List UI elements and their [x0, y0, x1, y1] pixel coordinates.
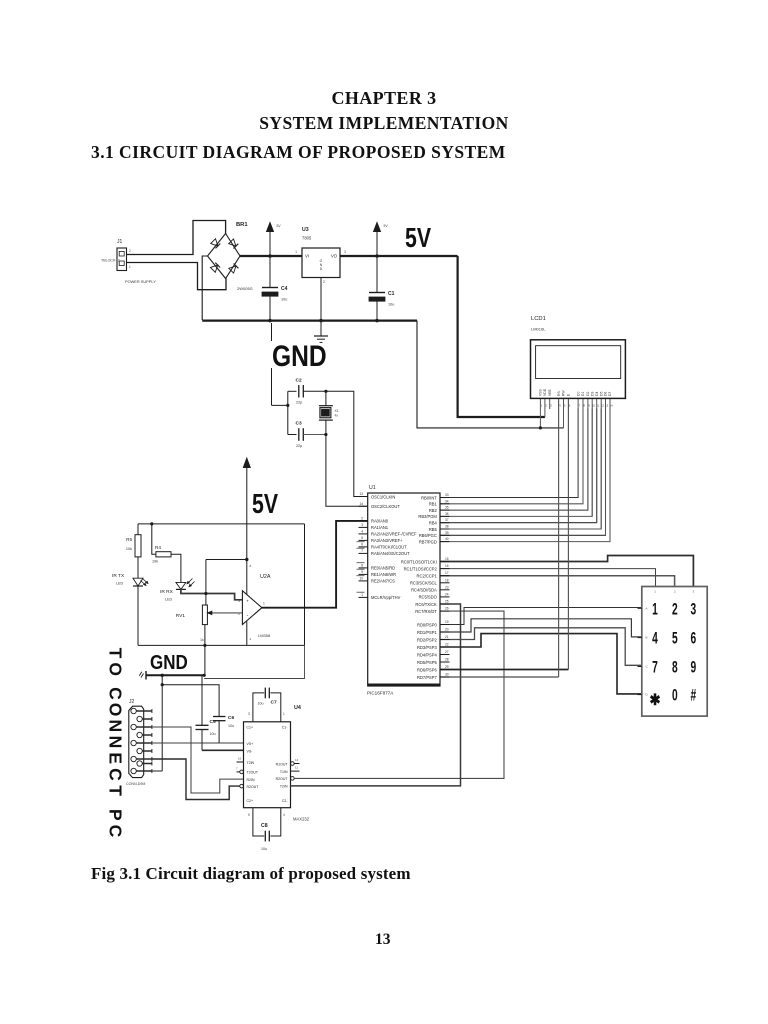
svg-text:RD6/PSP6: RD6/PSP6: [417, 667, 438, 672]
IR section enclosure left wire upper: [137, 524, 139, 535]
svg-text:RB2: RB2: [429, 508, 438, 513]
svg-text:4: 4: [283, 813, 285, 817]
wire opamp output to RA0 heavy: [262, 521, 368, 608]
junction opamp supply: [245, 558, 248, 561]
svg-text:RC7/RX/DT: RC7/RX/DT: [415, 609, 437, 614]
svg-text:4: 4: [361, 529, 363, 533]
svg-text:TBLOCK-I2: TBLOCK-I2: [101, 259, 120, 263]
power flag 5V above C4: [267, 223, 282, 257]
junction LCD VSS ground: [539, 426, 542, 429]
wire RC0 to keypad column3 heavy: [440, 556, 693, 587]
wire RD6 to LCD E heavy: [440, 400, 568, 670]
svg-text:1k: 1k: [200, 638, 204, 642]
svg-text:3: 3: [238, 599, 240, 603]
IR section enclosure top wire: [138, 523, 305, 525]
svg-text:RC5/SDO: RC5/SDO: [419, 595, 437, 600]
svg-text:C1-: C1-: [282, 726, 288, 730]
crystal X1: [319, 391, 339, 434]
wire enclosure to ground return: [204, 645, 304, 678]
svg-text:8: 8: [361, 563, 363, 567]
svg-text:8: 8: [672, 658, 678, 676]
LCD pin wires: [540, 398, 610, 677]
svg-text:CONN-D9M: CONN-D9M: [126, 782, 145, 786]
svg-text:C: C: [105, 768, 125, 781]
svg-text:27: 27: [445, 650, 449, 654]
svg-text:11: 11: [295, 766, 298, 770]
svg-text:29: 29: [445, 665, 449, 669]
svg-text:36: 36: [445, 512, 449, 516]
wire DB9 pin4 to U4 staircase heavy: [152, 759, 240, 800]
svg-text:10u: 10u: [388, 303, 394, 307]
wire R5 to IR TX: [137, 557, 139, 578]
svg-text:P: P: [105, 809, 125, 821]
svg-text:10k: 10k: [152, 560, 158, 564]
wire RB6 to LCD D6: [440, 409, 606, 536]
svg-text:30: 30: [445, 673, 449, 677]
svg-text:T: T: [105, 648, 125, 659]
power flag 5V above C1: [374, 223, 389, 257]
op-amp U2A: [238, 560, 271, 646]
svg-text:RC4/SDI/SDA: RC4/SDI/SDA: [411, 588, 437, 593]
capacitor C8 loop: [248, 808, 285, 851]
svg-text:RV1: RV1: [176, 613, 186, 619]
svg-text:1: 1: [129, 265, 131, 269]
wire RD2 to keypad row7: [440, 628, 642, 666]
svg-text:3: 3: [248, 712, 250, 716]
svg-text:RC2/CCP1: RC2/CCP1: [417, 574, 438, 579]
svg-text:2: 2: [545, 404, 547, 408]
svg-text:LM358: LM358: [258, 633, 271, 638]
junction DB9 ground branch: [161, 674, 164, 677]
svg-text:3: 3: [550, 404, 552, 408]
svg-text:RC0/T1OSO/T1CKI: RC0/T1OSO/T1CKI: [401, 559, 437, 564]
svg-text:24: 24: [445, 592, 449, 596]
svg-text:R2OUT: R2OUT: [247, 785, 260, 789]
svg-text:RC1/T1OSI/CCP2: RC1/T1OSI/CCP2: [404, 566, 438, 571]
junction C3 right: [324, 433, 327, 436]
svg-text:21: 21: [445, 635, 449, 639]
svg-text:D7: D7: [608, 392, 612, 396]
svg-text:16: 16: [445, 564, 449, 568]
junction crystal left rail: [286, 404, 289, 407]
svg-text:RD1/PSP1: RD1/PSP1: [417, 630, 438, 635]
junction C6 branch: [161, 683, 164, 686]
svg-text:1: 1: [652, 600, 658, 618]
svg-text:J1: J1: [117, 239, 123, 245]
svg-text:17: 17: [445, 571, 449, 575]
svg-text:4: 4: [250, 637, 252, 641]
wire RD7 to LCD RS: [440, 400, 559, 677]
svg-text:RB5: RB5: [429, 527, 438, 532]
svg-text:6: 6: [569, 404, 571, 408]
svg-text:RB0/INT: RB0/INT: [421, 495, 437, 500]
svg-text:15: 15: [445, 557, 449, 561]
svg-text:5V: 5V: [384, 224, 389, 228]
resistor R5: [126, 535, 141, 557]
svg-text:12: 12: [295, 758, 299, 762]
svg-text:5: 5: [361, 536, 363, 540]
svg-text:T: T: [105, 785, 125, 796]
svg-text:C5: C5: [210, 719, 216, 725]
GND wire heavy lower: [146, 674, 204, 676]
wire bridge plus to regulator heavy: [240, 255, 302, 257]
IR section enclosure right wire: [304, 524, 306, 646]
left rail between C2 C3: [287, 391, 289, 434]
svg-text:O: O: [105, 662, 125, 676]
wire RB3 to LCD D3: [440, 409, 592, 517]
wire crystal to OSC2: [326, 435, 368, 507]
svg-text:26: 26: [445, 607, 449, 611]
svg-text:B: B: [646, 636, 648, 640]
svg-text:D0: D0: [576, 392, 580, 396]
svg-text:VEE: VEE: [548, 388, 552, 396]
resistor R4: [152, 545, 171, 564]
U4 right stub T1IN: [291, 766, 300, 772]
wire bridge minus to GND rail: [202, 256, 207, 320]
LCD display LM016L: [531, 316, 626, 408]
wire RD1 to keypad row4: [440, 619, 642, 637]
svg-text:RA1/AN1: RA1/AN1: [371, 525, 389, 530]
svg-text:2: 2: [129, 249, 131, 253]
svg-text:U3: U3: [302, 227, 309, 233]
svg-text:RD3/PSP3: RD3/PSP3: [417, 645, 438, 650]
svg-text:PIC16F877A: PIC16F877A: [367, 691, 394, 696]
svg-text:OSC1/CLKIN: OSC1/CLKIN: [371, 494, 395, 499]
svg-text:1: 1: [541, 404, 543, 408]
junction C2 right: [324, 390, 327, 393]
svg-text:T2IN: T2IN: [280, 785, 288, 789]
svg-text:8: 8: [583, 404, 585, 408]
svg-text:R1OUT: R1OUT: [276, 762, 289, 766]
svg-text:3: 3: [691, 600, 697, 618]
svg-text:A: A: [646, 606, 648, 610]
svg-text:N: N: [105, 719, 125, 732]
wire R4 to IR RX: [171, 554, 181, 582]
svg-text:7: 7: [652, 658, 658, 676]
power flag 5V opamp: [243, 458, 250, 560]
svg-text:D4: D4: [595, 392, 599, 396]
wire U3 GND pin: [320, 278, 322, 321]
svg-text:RD7/PSP7: RD7/PSP7: [417, 675, 438, 680]
svg-text:2: 2: [672, 600, 678, 618]
svg-text:8: 8: [250, 564, 252, 568]
svg-text:LED: LED: [116, 582, 124, 586]
svg-text:RE1/AN6/WR: RE1/AN6/WR: [371, 572, 396, 577]
svg-text:1: 1: [361, 593, 363, 597]
svg-text:5: 5: [248, 813, 250, 817]
capacitor C5: [196, 719, 216, 750]
svg-text:35: 35: [445, 506, 449, 510]
wire U4 R2OUT to RC7: [294, 611, 504, 778]
svg-text:20: 20: [445, 628, 449, 632]
svg-text:#: #: [691, 686, 697, 704]
svg-text:19: 19: [445, 620, 449, 624]
U4 left bubble R2in pin: [240, 784, 244, 788]
svg-text:R4: R4: [155, 545, 161, 550]
svg-text:T2IN: T2IN: [247, 761, 255, 765]
junction C4 bottom: [268, 319, 272, 323]
svg-text:-: -: [247, 613, 249, 619]
svg-text:38: 38: [445, 525, 449, 529]
svg-text:RS: RS: [557, 391, 561, 396]
svg-text:VO: VO: [331, 254, 338, 259]
svg-text:RA0/AN0: RA0/AN0: [371, 519, 389, 524]
ground symbol below rail: [314, 321, 328, 343]
svg-text:VS+: VS+: [247, 742, 254, 746]
svg-text:D3: D3: [590, 392, 594, 396]
svg-text:9: 9: [691, 658, 697, 676]
svg-text:BR1: BR1: [236, 222, 248, 228]
wire IR RX to opamp plus input heavy: [181, 589, 243, 599]
U4 right bubble R1OUT: [291, 758, 300, 765]
svg-text:C1: C1: [388, 291, 395, 297]
svg-text:1: 1: [295, 250, 297, 254]
capacitor C4: [262, 256, 288, 321]
svg-text:RD0/PSP0: RD0/PSP0: [417, 622, 438, 627]
svg-text:4: 4: [559, 404, 561, 408]
svg-text:T1IN: T1IN: [280, 770, 288, 774]
svg-text:VDD: VDD: [543, 388, 547, 396]
U4 left bubble T2OUT: [236, 767, 243, 774]
svg-text:5V: 5V: [277, 224, 282, 228]
svg-text:37: 37: [445, 518, 449, 522]
svg-text:RD4/PSP4: RD4/PSP4: [417, 652, 438, 657]
svg-text:U4: U4: [294, 705, 301, 711]
svg-text:LM016L: LM016L: [531, 327, 546, 332]
svg-text:D: D: [320, 267, 323, 271]
junction C1 bottom: [375, 319, 379, 323]
svg-text:MAX232: MAX232: [293, 817, 310, 822]
svg-text:14: 14: [359, 502, 363, 506]
junction at C4 top: [268, 254, 272, 258]
svg-text:C2-: C2-: [282, 799, 288, 803]
svg-text:J2: J2: [129, 699, 135, 705]
wire to resistor R4: [152, 524, 156, 554]
wire RB0 to LCD D0: [440, 409, 578, 498]
svg-text:11: 11: [596, 404, 599, 408]
svg-text:22p: 22p: [296, 401, 302, 405]
capacitor C1: [369, 256, 395, 321]
svg-text:D: D: [646, 693, 648, 697]
svg-text:C: C: [105, 687, 125, 700]
svg-text:23: 23: [445, 585, 449, 589]
svg-text:C: C: [105, 825, 125, 838]
wire RD3 to keypad row-star heavy: [440, 634, 642, 694]
svg-text:RA3/AN3/VREF+: RA3/AN3/VREF+: [371, 538, 403, 543]
wire RB1 to LCD D1: [440, 409, 583, 504]
svg-text:POWER SUPPLY: POWER SUPPLY: [125, 279, 156, 284]
wire RB5 to LCD D5: [440, 409, 601, 530]
svg-text:C4: C4: [281, 286, 288, 292]
IR TX diode: [112, 573, 148, 586]
svg-text:1: 1: [263, 602, 265, 606]
svg-text:R2OUT: R2OUT: [276, 777, 289, 781]
svg-text:39: 39: [445, 531, 449, 535]
svg-text:10u: 10u: [281, 298, 287, 302]
svg-text:3: 3: [344, 250, 346, 254]
svg-text:1: 1: [283, 712, 285, 716]
IC U1 PIC16F877A microcontroller: [357, 485, 450, 696]
wire ground branch down to DB9: [152, 675, 162, 771]
wire branch to C6: [162, 685, 219, 717]
svg-text:D1: D1: [581, 392, 585, 396]
svg-text:4: 4: [652, 629, 658, 647]
junction at C1 top: [375, 254, 379, 258]
svg-text:4u: 4u: [335, 414, 339, 418]
svg-text:R5: R5: [126, 537, 132, 542]
wire U4 T2IN to RC6 heavy: [291, 604, 461, 786]
wire GND to C5: [201, 675, 203, 725]
svg-text:LCD1: LCD1: [531, 316, 546, 322]
svg-text:RB3/PGM: RB3/PGM: [418, 514, 437, 519]
svg-text:RD2/PSP2: RD2/PSP2: [417, 637, 438, 642]
svg-text:VS-: VS-: [247, 749, 254, 753]
svg-text:5: 5: [564, 404, 566, 408]
IR section enclosure bottom wire: [138, 644, 305, 646]
potentiometer RV1: [176, 605, 243, 642]
svg-text:RA2/AN2/VREF-/CVREF: RA2/AN2/VREF-/CVREF: [371, 532, 417, 537]
svg-text:RD5/PSP5: RD5/PSP5: [417, 660, 438, 665]
svg-text:7: 7: [578, 404, 580, 408]
wire DB9 pin2 to U4 staircase: [152, 727, 244, 793]
connector J1 power input: [101, 239, 156, 284]
svg-text:RB4: RB4: [429, 521, 438, 526]
junction RV1 string ground: [203, 674, 206, 677]
svg-text:34: 34: [445, 499, 449, 503]
capacitor C2: [288, 378, 326, 405]
svg-text:X1: X1: [335, 409, 339, 413]
svg-text:7: 7: [236, 767, 238, 771]
wire RD0 to keypad row1: [440, 608, 642, 625]
junction RV1 bottom: [203, 644, 206, 647]
svg-text:✱: ✱: [649, 692, 660, 709]
svg-text:RB1: RB1: [429, 502, 438, 507]
svg-text:IR RX: IR RX: [160, 589, 174, 595]
wire IR TX to bottom: [137, 586, 139, 645]
wire 5V branch to RV1: [206, 560, 247, 606]
svg-text:C: C: [646, 665, 648, 669]
svg-text:MCLR/Vpp/THV: MCLR/Vpp/THV: [371, 595, 401, 600]
svg-text:10u: 10u: [228, 724, 234, 728]
U4 right bubble R2OUT: [291, 777, 295, 781]
svg-text:U2A: U2A: [260, 574, 271, 580]
IR RX diode: [160, 579, 195, 602]
svg-text:25: 25: [445, 600, 449, 604]
svg-text:T2OUT: T2OUT: [247, 771, 259, 775]
svg-text:C2+: C2+: [247, 799, 254, 803]
svg-text:RB6/PGC: RB6/PGC: [419, 533, 437, 538]
svg-text:RC6/TX/CK: RC6/TX/CK: [415, 602, 437, 607]
svg-text:0: 0: [672, 686, 678, 704]
svg-text:OSC2/CLKOUT: OSC2/CLKOUT: [371, 504, 400, 509]
wire RC2 to keypad column2: [440, 576, 675, 587]
svg-text:C8: C8: [261, 823, 268, 829]
wire RV1 bottom to enclosure: [204, 625, 206, 646]
svg-text:D6: D6: [604, 392, 608, 396]
svg-text:C3: C3: [296, 421, 302, 427]
svg-text:10k: 10k: [126, 547, 132, 551]
svg-text:U1: U1: [369, 485, 376, 491]
svg-text:RE2/AN7/CS: RE2/AN7/CS: [371, 579, 395, 584]
capacitor C6: [213, 715, 234, 743]
wire RB2 to LCD D2: [440, 409, 588, 511]
svg-text:22p: 22p: [296, 444, 302, 448]
wire 5V rail down to LCD VDD heavy: [458, 256, 545, 417]
svg-text:40: 40: [445, 537, 449, 541]
svg-text:LED: LED: [165, 598, 173, 602]
svg-text:33: 33: [445, 493, 449, 497]
svg-text:IR TX: IR TX: [112, 573, 125, 579]
svg-text:+: +: [246, 598, 249, 603]
svg-text:10: 10: [592, 404, 596, 408]
svg-text:N: N: [105, 736, 125, 749]
svg-text:22: 22: [445, 643, 449, 647]
svg-text:RC3/SCK/SCL: RC3/SCK/SCL: [410, 581, 438, 586]
svg-text:C6: C6: [228, 715, 234, 721]
svg-text:10u: 10u: [210, 732, 216, 736]
svg-text:R2IN: R2IN: [247, 778, 255, 782]
wire DB9 pin3 to U4: [152, 742, 244, 744]
svg-text:2W005G: 2W005G: [237, 286, 253, 291]
keypad 4x3: [638, 587, 708, 717]
svg-text:13: 13: [605, 404, 609, 408]
wire C5 to U4 heavy: [202, 749, 244, 751]
junction R4 top: [150, 522, 153, 525]
wire crystal to OSC1: [326, 391, 368, 496]
svg-text:18: 18: [445, 578, 449, 582]
svg-text:2: 2: [361, 516, 363, 520]
wire GND to crystal caps: [272, 323, 288, 405]
svg-text:VSS: VSS: [539, 388, 543, 396]
svg-text:C2: C2: [296, 378, 302, 384]
wire J1 pin2 to bridge AC2: [127, 263, 227, 290]
svg-text:O: O: [105, 703, 125, 717]
wire RV1 bottom to GND: [204, 645, 206, 675]
U4 left stub T2IN: [237, 757, 244, 763]
wire J1 pin1 to bridge AC1: [127, 221, 226, 255]
svg-text:10u: 10u: [258, 702, 264, 706]
svg-text:VI: VI: [305, 254, 309, 259]
connector J2 DB9 serial: [126, 699, 152, 786]
svg-text:7805: 7805: [302, 236, 312, 241]
bridge rectifier BR1: [208, 222, 253, 291]
svg-text:28: 28: [445, 658, 449, 662]
svg-text:3: 3: [361, 523, 363, 527]
wire regulator output 5V rail heavy: [340, 255, 458, 257]
ground terminal symbol: [139, 671, 146, 680]
svg-text:6: 6: [361, 542, 363, 546]
svg-text:RW: RW: [562, 390, 566, 396]
svg-text:6: 6: [691, 629, 697, 647]
junction RV1 top: [204, 592, 207, 595]
capacitor C3: [288, 421, 326, 449]
svg-text:10u: 10u: [261, 847, 267, 851]
svg-text:5: 5: [672, 629, 678, 647]
svg-text:14: 14: [610, 404, 614, 408]
svg-text:2: 2: [238, 612, 240, 616]
svg-text:E: E: [105, 752, 125, 764]
svg-text:C1+: C1+: [247, 726, 254, 730]
wire GND rail to LCD ground: [417, 321, 564, 428]
wire RC1 to keypad column1: [440, 569, 656, 587]
wire RB7 to LCD D7: [440, 409, 610, 542]
svg-text:RB7/PGD: RB7/PGD: [419, 539, 437, 544]
svg-text:10: 10: [359, 576, 363, 580]
junction U3 ground: [319, 319, 323, 323]
wire RB4 to LCD D4: [440, 409, 597, 523]
GND rail heavy: [202, 320, 417, 322]
svg-text:C7: C7: [271, 700, 277, 706]
